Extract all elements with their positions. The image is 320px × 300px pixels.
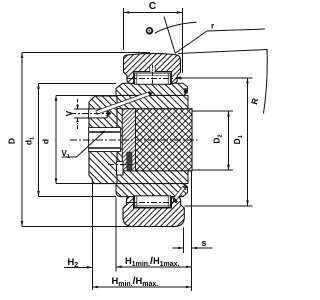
centerline main axis <box>70 139 198 141</box>
svg-text:s: s <box>202 238 207 248</box>
needle roller bottom <box>135 194 171 215</box>
dimension Hmin/Hmax <box>92 275 191 288</box>
dimension D <box>7 53 151 227</box>
hub flange <box>89 96 117 184</box>
inner ring top <box>116 83 188 95</box>
centerline top roller axis <box>127 77 177 79</box>
dimension d <box>41 95 121 183</box>
svg-text:D: D <box>7 138 17 144</box>
svg-text:V: V <box>65 110 74 116</box>
dimension C top <box>124 1 183 73</box>
centerline bottom roller axis <box>127 201 177 203</box>
svg-text:C: C <box>149 1 156 12</box>
swivel arc top <box>155 22 197 33</box>
sleeve band bottom <box>117 171 188 184</box>
centerline bottom hole axis <box>108 163 134 165</box>
outer ring bottom with side ribs <box>123 197 184 227</box>
dimension D1 right <box>175 76 252 206</box>
dimension D2 right <box>193 111 234 170</box>
svg-text:d: d <box>41 139 51 144</box>
centerline V slot axis <box>70 113 110 115</box>
dimension d1 <box>24 83 117 196</box>
lube duct bottom diagonal <box>172 186 186 203</box>
leader R crown radius <box>178 50 267 114</box>
dimension s <box>173 238 213 249</box>
sleeve band top <box>117 95 188 108</box>
leader r <box>176 22 266 54</box>
grease nipple symbol circled <box>146 27 154 35</box>
lube duct top diagonal <box>96 92 153 118</box>
bottom small lube slot <box>117 162 124 176</box>
dimension H1min/H1max <box>116 255 191 268</box>
outer ring top crowned with side ribs <box>124 53 181 85</box>
threaded hole V1 in hub <box>89 128 121 152</box>
dimension H2 <box>64 257 92 269</box>
lube slot V in hub <box>89 109 108 118</box>
tire block center cross-hatched <box>117 95 192 183</box>
svg-text:r: r <box>211 22 214 31</box>
inner ring bottom <box>116 184 188 197</box>
dimension V <box>65 99 90 129</box>
bottom extension lines <box>91 184 93 290</box>
label V1 with leader <box>62 130 106 159</box>
steep tilt line <box>164 17 175 54</box>
needle roller top <box>135 73 171 84</box>
